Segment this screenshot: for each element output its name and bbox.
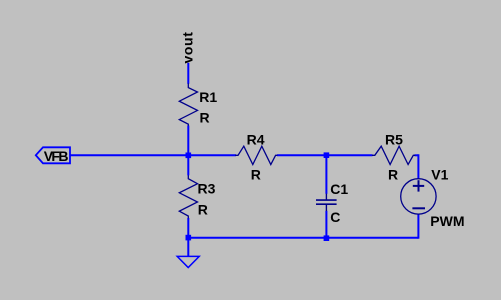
svg-text:R3: R3 [198,181,216,197]
wire: V1 minus terminal down to ground rail corner [417,214,419,239]
wire: ground rail (bottom) [188,237,418,239]
wire: R5 right stub to corner [415,154,419,156]
resistor R3 [179,175,197,218]
junction node C1 top [324,152,330,158]
wire: ground rail node down to ground symbol [187,238,189,257]
wire: node VFB down to R3 top [187,155,189,175]
svg-text:R1: R1 [199,89,217,105]
svg-text:C: C [330,209,340,225]
capacitor C1 [316,194,337,211]
V1 plus terminal mark [413,180,424,191]
voltage source V1 [401,179,436,214]
svg-text:R5: R5 [385,131,403,147]
resistor R1 [179,83,197,125]
svg-text:R: R [251,167,261,183]
wire: R1 bottom to node VFB [187,126,189,156]
junction node C1 bottom [324,235,330,241]
wire: C1 top node down to C1 top plate [325,155,327,194]
junction node VFB (R1/R3/flag) [186,153,192,159]
V1 minus terminal mark [412,207,425,209]
resistor R4 [235,146,278,164]
ground [177,256,199,267]
wire: C1 bottom plate to ground rail [325,211,327,238]
wire: corner down to V1 plus terminal [417,154,419,179]
svg-text:R: R [200,110,210,126]
svg-text:vout: vout [180,32,196,64]
svg-text:R: R [198,201,208,217]
svg-text:V1: V1 [431,166,448,182]
wire: R3 bottom to ground rail node [187,218,189,238]
junction node ground rail / R3 bottom [186,235,192,241]
svg-text:C1: C1 [330,181,348,197]
svg-text:R4: R4 [247,131,265,147]
svg-text:PWM: PWM [430,213,464,229]
resistor R5 [372,146,415,164]
svg-text:VFB: VFB [44,148,69,164]
wire: vout label down to R1 top [187,63,189,84]
svg-text:R: R [388,167,398,183]
wire: VFB flag to R4 left (node VFB) [70,154,236,156]
wire: R4 right to R5 left (through C1 top node) [277,154,373,156]
net flag VFB [36,147,70,163]
